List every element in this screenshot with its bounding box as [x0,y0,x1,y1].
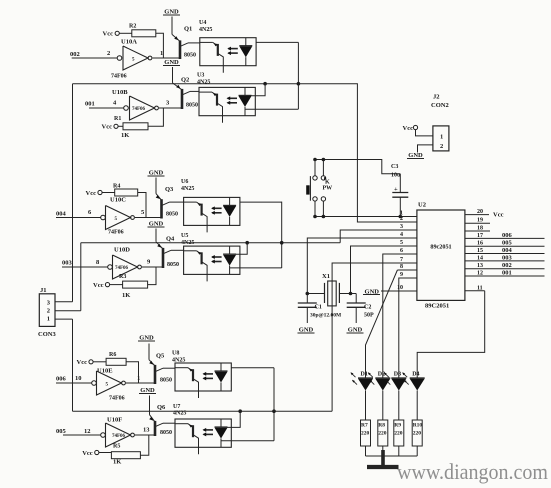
svg-text:74F06: 74F06 [111,74,127,80]
svg-text:74F06: 74F06 [132,107,146,112]
svg-text:U2: U2 [418,202,426,209]
svg-text:U8: U8 [172,351,179,357]
svg-text:CON2: CON2 [431,102,449,109]
svg-text:R3: R3 [119,274,126,280]
svg-text:7: 7 [400,257,403,263]
svg-text:220: 220 [361,431,370,437]
svg-text:1: 1 [440,134,443,141]
svg-text:Vcc: Vcc [82,450,93,457]
svg-text:R9: R9 [394,423,401,429]
svg-text:003: 003 [62,260,73,267]
svg-text:2: 2 [400,216,403,222]
svg-text:www.diangon.com: www.diangon.com [397,459,548,484]
svg-text:GND: GND [164,9,179,16]
svg-text:Vcc: Vcc [103,31,114,38]
svg-text:U6: U6 [181,179,188,185]
svg-text:Q2: Q2 [181,77,189,84]
svg-text:GND: GND [408,152,423,159]
svg-text:50P: 50P [364,313,374,319]
svg-text:004: 004 [56,211,67,218]
svg-text:J1: J1 [40,287,47,294]
svg-text:GND: GND [164,59,179,66]
svg-text:1K: 1K [122,292,130,299]
svg-text:U3: U3 [197,73,204,79]
svg-text:002: 002 [70,51,80,58]
svg-text:1K: 1K [113,459,121,466]
svg-text:9: 9 [400,272,403,278]
svg-text:4N25: 4N25 [181,186,194,192]
svg-text:8050: 8050 [167,262,179,268]
svg-text:3: 3 [400,224,403,230]
svg-text:005: 005 [502,240,513,247]
svg-text:+: + [394,186,398,193]
svg-text:Q4: Q4 [166,236,175,243]
svg-text:R2: R2 [129,24,136,30]
svg-text:8050: 8050 [184,53,196,59]
svg-text:C2: C2 [364,305,371,311]
svg-text:Vcc: Vcc [93,282,104,289]
svg-text:J2: J2 [433,94,440,101]
svg-text:001: 001 [502,270,512,277]
svg-text:006: 006 [56,376,67,383]
svg-text:1: 1 [47,315,50,322]
svg-text:Vcc: Vcc [493,212,504,219]
svg-text:D2: D2 [378,372,385,378]
svg-text:GND: GND [149,221,164,228]
svg-text:CON3: CON3 [38,331,56,338]
svg-text:C1: C1 [315,305,322,311]
svg-text:U5: U5 [181,233,188,239]
svg-text:003: 003 [502,254,513,261]
svg-text:U10B: U10B [112,89,128,96]
svg-text:89C2051: 89C2051 [425,303,449,310]
svg-text:8050: 8050 [160,430,172,436]
svg-text:4: 4 [400,232,403,238]
svg-text:10: 10 [75,375,82,382]
svg-text:Vcc: Vcc [86,190,97,197]
svg-text:12: 12 [84,428,91,435]
svg-text:R6: R6 [109,352,116,358]
svg-text:006: 006 [502,232,513,239]
svg-text:10: 10 [397,285,403,291]
svg-text:2: 2 [107,50,110,57]
svg-text:Vcc: Vcc [102,124,113,131]
svg-text:8050: 8050 [186,103,198,109]
svg-text:002: 002 [502,262,512,269]
svg-text:D1: D1 [361,372,368,378]
svg-text:C3: C3 [391,164,398,170]
svg-text:X1: X1 [322,273,330,280]
svg-text:U7: U7 [173,404,180,410]
svg-text:D3: D3 [394,372,401,378]
svg-text:8050: 8050 [166,212,178,218]
svg-text:U10E: U10E [97,368,113,375]
svg-text:U4: U4 [199,20,206,26]
svg-text:74F06: 74F06 [112,434,126,439]
svg-text:U10D: U10D [114,247,130,254]
svg-text:D4: D4 [412,372,419,378]
svg-text:Q3: Q3 [165,186,174,193]
svg-text:74F06: 74F06 [108,230,124,236]
svg-text:5: 5 [400,240,403,246]
svg-text:R8: R8 [378,423,385,429]
svg-text:R1: R1 [114,116,121,122]
svg-text:30p@12.00M: 30p@12.00M [310,313,342,319]
svg-text:74F06: 74F06 [115,266,129,271]
svg-text:Vcc: Vcc [403,125,414,132]
svg-text:U10F: U10F [107,417,122,424]
svg-text:005: 005 [56,428,67,435]
svg-text:GND: GND [149,170,164,177]
svg-text:R10: R10 [413,423,423,429]
svg-text:U10A: U10A [121,39,137,46]
svg-text:R7: R7 [361,423,368,429]
svg-text:8: 8 [400,264,403,270]
svg-text:6: 6 [400,248,403,254]
svg-text:1K: 1K [121,132,129,139]
svg-text:220: 220 [413,431,422,437]
svg-text:Vcc: Vcc [77,359,88,366]
svg-text:4N25: 4N25 [197,80,210,86]
svg-text:GND: GND [139,335,154,342]
svg-text:74F06: 74F06 [109,396,125,402]
svg-text:4N25: 4N25 [199,27,212,33]
svg-text:Q1: Q1 [184,26,192,33]
svg-text:GND: GND [299,327,314,334]
svg-text:2: 2 [47,307,50,314]
svg-text:220: 220 [378,431,387,437]
svg-text:Q6: Q6 [157,404,166,411]
svg-text:220: 220 [394,431,403,437]
svg-text:R5: R5 [113,444,120,450]
svg-text:10u: 10u [391,173,401,179]
svg-text:89c2051: 89c2051 [430,244,451,251]
svg-text:8050: 8050 [160,378,172,384]
svg-text:004: 004 [502,247,513,254]
svg-text:1: 1 [160,50,163,57]
svg-text:GND: GND [140,387,155,394]
svg-text:001: 001 [85,101,95,108]
svg-text:GND: GND [348,327,363,334]
svg-text:PW: PW [323,186,333,192]
svg-text:13: 13 [143,427,150,434]
svg-text:2: 2 [440,143,443,150]
svg-text:Q5: Q5 [156,353,165,360]
svg-text:U10C: U10C [110,197,126,204]
